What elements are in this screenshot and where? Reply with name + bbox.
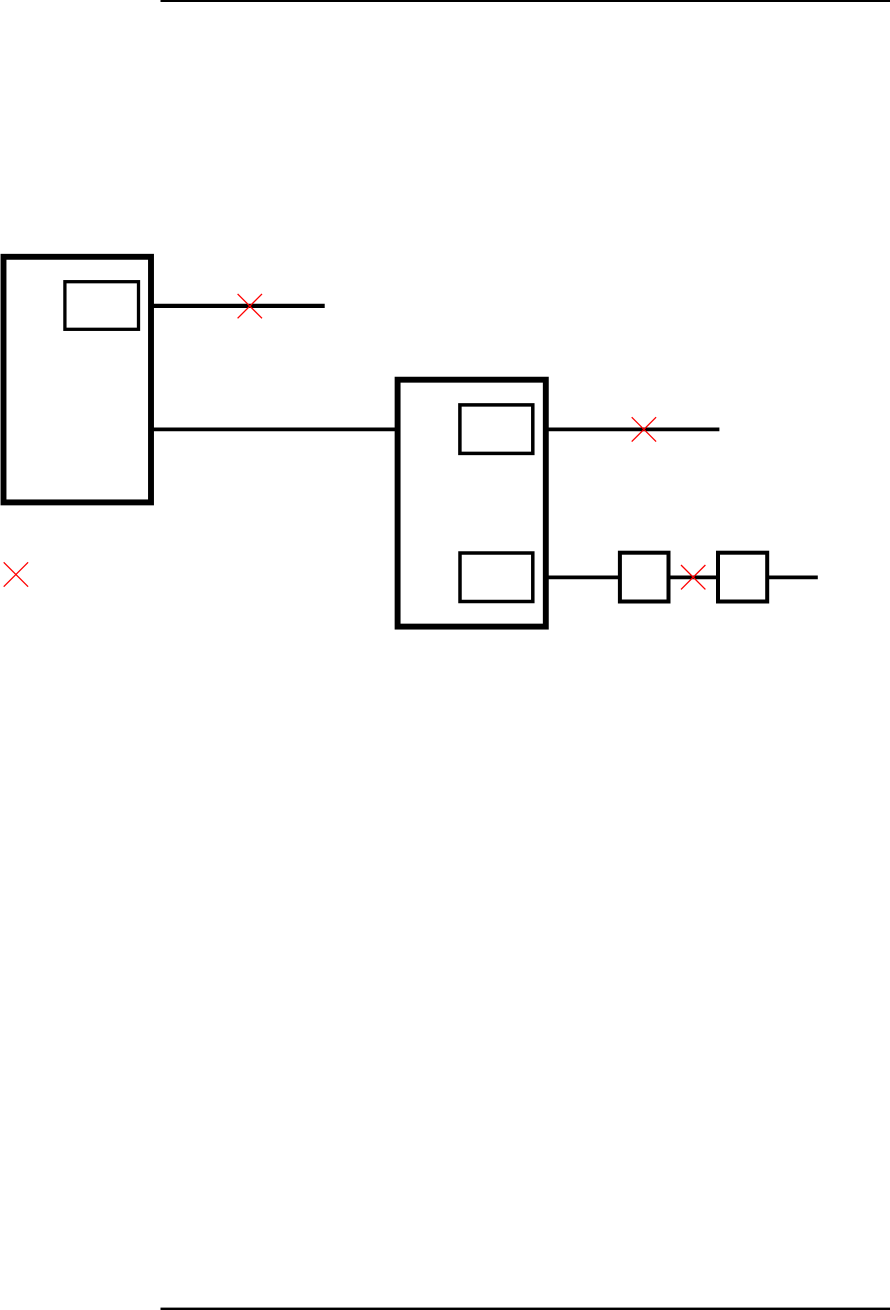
wire: link between left and right process [150, 428, 398, 432]
footer rule [161, 1308, 890, 1310]
cross X4 at lower left margin [4, 562, 28, 586]
cross X3 between squares [681, 565, 705, 589]
box: lower inner descriptor box of right process [460, 553, 533, 602]
box: upper inner descriptor box of right process [460, 405, 533, 454]
wire: between square A and square B [668, 576, 718, 580]
wire: top stub from left process [150, 304, 325, 308]
box: small square A [620, 553, 669, 602]
cross X1 on top stub [238, 294, 262, 318]
box: right process rectangle [398, 380, 546, 627]
wire: lower stub from right process to square A [543, 576, 620, 580]
wire: right stub from square B [767, 576, 818, 580]
cross X2 on upper stub [632, 417, 656, 441]
box: left process rectangle [4, 257, 152, 503]
wire: upper stub from right process [543, 428, 719, 432]
box: small square B [718, 553, 767, 602]
box: inner descriptor box of left process [65, 282, 139, 330]
header rule [161, 0, 890, 2]
